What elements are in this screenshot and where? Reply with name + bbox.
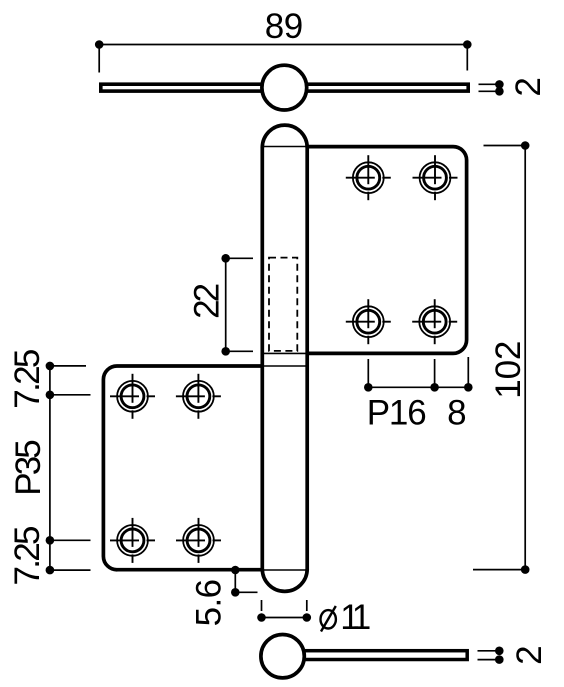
- left leaf outline: [103, 366, 262, 570]
- svg-text:P16: P16: [367, 394, 427, 433]
- svg-text:22: 22: [188, 283, 227, 319]
- svg-text:2: 2: [510, 645, 549, 664]
- screw hole left leaf bottom-left: [110, 518, 155, 563]
- screw hole right leaf bottom-left: [346, 299, 391, 344]
- screw hole left leaf top-left: [110, 374, 155, 419]
- top thickness 2 leaders: [479, 84, 500, 91]
- barrel left edge: [260, 147, 264, 571]
- bottom view barrel circle: [261, 635, 304, 678]
- barrel bottom cap: [262, 569, 307, 591]
- dimension phi11: [262, 600, 307, 618]
- dimension 5.6: [235, 570, 257, 592]
- svg-text:89: 89: [265, 7, 304, 46]
- pin hidden dashed rect: [269, 258, 297, 351]
- dimension 102: [473, 146, 525, 570]
- top thickness 2 dots: [495, 80, 504, 89]
- barrel top cap: [262, 125, 307, 147]
- screw hole left leaf bottom-right: [176, 518, 221, 563]
- dimension P16 8: [368, 357, 468, 387]
- left dimension chain 7.25 / P35 / 7.25: [50, 366, 91, 570]
- svg-text:102: 102: [489, 341, 528, 399]
- svg-text:11: 11: [340, 598, 371, 637]
- dimension 22: [226, 258, 253, 351]
- bottom thickness 2 leaders: [478, 651, 500, 660]
- screw hole left leaf top-right: [176, 374, 221, 419]
- bottom view plate: [284, 651, 467, 660]
- svg-text:7.25: 7.25: [8, 349, 47, 409]
- dimension 89 dots: [95, 40, 104, 49]
- barrel top cap base line: [262, 146, 307, 148]
- left leaf top edge across barrel: [262, 365, 307, 367]
- svg-text:2: 2: [509, 77, 548, 96]
- top view plate: [101, 84, 468, 91]
- right leaf outline: [307, 147, 466, 354]
- svg-text:7.25: 7.25: [8, 526, 47, 586]
- dimension 89 line: [99, 45, 467, 73]
- barrel bottom cap base line: [262, 569, 307, 571]
- svg-text:5.6: 5.6: [190, 579, 229, 627]
- svg-text:P35: P35: [9, 439, 48, 496]
- screw hole right leaf top-left: [346, 155, 391, 200]
- top view barrel circle: [262, 65, 307, 110]
- screw hole right leaf bottom-right: [412, 299, 457, 344]
- screw hole right leaf top-right: [413, 155, 458, 200]
- barrel right edge: [305, 147, 309, 571]
- svg-text:8: 8: [447, 394, 466, 433]
- phi symbol: [321, 606, 336, 632]
- right leaf bottom edge across barrel: [262, 352, 307, 354]
